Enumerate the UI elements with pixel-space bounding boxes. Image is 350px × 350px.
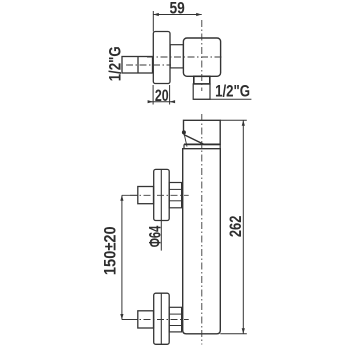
mixer handle bbox=[184, 120, 221, 144]
lower nut facet lines bbox=[169, 313, 181, 315]
lower flange face line bbox=[160, 293, 162, 344]
stub division line bbox=[137, 57, 139, 74]
svg-text:262: 262 bbox=[226, 216, 245, 238]
dim 262 line bbox=[242, 120, 244, 333]
dim 150±20 line bbox=[121, 195, 123, 319]
extension line left of dim 59 bbox=[152, 11, 154, 32]
wall elbow: outlet neck bbox=[194, 76, 210, 84]
lower inlet stub bbox=[138, 311, 154, 328]
upper inlet stub bbox=[138, 187, 154, 204]
dim 20 line bbox=[148, 101, 174, 103]
svg-text:59: 59 bbox=[170, 0, 185, 17]
svg-text:1/2"G: 1/2"G bbox=[105, 46, 124, 81]
dim 20 arrows (outside) bbox=[148, 100, 154, 103]
svg-text:150±20: 150±20 bbox=[101, 226, 120, 275]
dim 59 arrows bbox=[153, 13, 159, 16]
wall elbow: flange disc bbox=[153, 32, 170, 84]
wall elbow: outlet body bbox=[193, 84, 210, 99]
lower inlet centerline bbox=[122, 319, 138, 321]
lower inlet nut bbox=[169, 307, 181, 332]
mixer body vertical centerline bbox=[201, 114, 203, 345]
handle bottom thick edge bbox=[184, 143, 220, 145]
mixer body bbox=[183, 149, 221, 334]
dimension 20: extension lines bbox=[148, 85, 174, 105]
handle underside line bbox=[184, 135, 187, 147]
leader underline for 1/2"G outlet label bbox=[193, 98, 251, 100]
cartridge ring bbox=[184, 144, 220, 148]
wall elbow: inlet stub pipe bbox=[122, 57, 153, 74]
dimension 59: dimension line bbox=[153, 11, 201, 32]
wall elbow: collar bbox=[170, 45, 183, 68]
dim 262 extension top bbox=[220, 119, 247, 121]
handle corner dot bbox=[182, 130, 186, 134]
centerline of elbow outlet (vertical) bbox=[201, 20, 203, 91]
svg-text:Φ64: Φ64 bbox=[145, 225, 164, 247]
dim 262 extension bottom bbox=[220, 333, 247, 335]
lower inlet flange bbox=[154, 293, 170, 344]
phi64 leader line bbox=[160, 221, 162, 251]
upper inlet centerline bbox=[122, 194, 138, 196]
svg-text:20: 20 bbox=[155, 86, 169, 105]
wall elbow: body square bbox=[183, 38, 220, 76]
centerline of stub bbox=[126, 64, 171, 66]
upper nut facet lines bbox=[169, 188, 181, 190]
centerline of elbow body (horizontal) bbox=[147, 56, 224, 58]
svg-text:1/2"G: 1/2"G bbox=[215, 81, 250, 100]
upper flange face line bbox=[160, 169, 162, 220]
upper inlet flange bbox=[154, 169, 170, 220]
upper inlet nut bbox=[169, 183, 181, 208]
